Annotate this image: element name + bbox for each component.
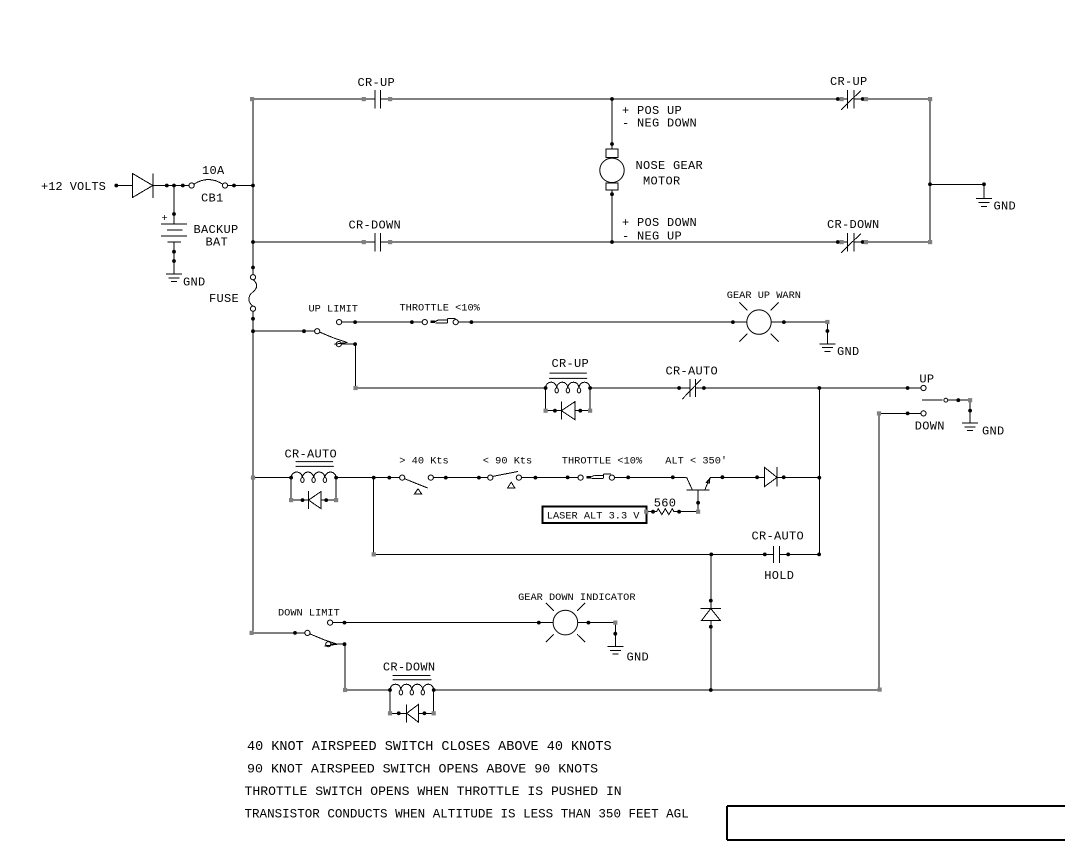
wire left bus vertical lower	[252, 311, 254, 633]
ground GND right of rails	[976, 199, 992, 207]
junction dots row 5	[289, 476, 293, 480]
title block border	[727, 806, 1065, 840]
wire 40kt to 90kt switch	[433, 477, 487, 479]
svg-text:GND: GND	[994, 200, 1017, 214]
svg-text:CR-AUTO: CR-AUTO	[285, 448, 338, 462]
ground GND at battery	[166, 274, 182, 282]
node squares top rail	[250, 97, 254, 101]
junction dots row 8	[388, 688, 392, 692]
node square warn lamp ground corner	[824, 219, 826, 221]
svg-text:GEAR UP WARN: GEAR UP WARN	[727, 290, 801, 302]
node squares CR-AUTO flyback diode	[289, 498, 293, 502]
wire down-limit upper throw to indicator lamp	[333, 622, 553, 624]
flyback diode across CR-DOWN coil	[390, 690, 434, 722]
svg-text:CR-UP: CR-UP	[358, 76, 396, 90]
node square DOWN branch corner	[877, 411, 881, 415]
junction dots row 7	[293, 631, 297, 635]
wire right vertical joining rails	[929, 99, 931, 242]
svg-text:GND: GND	[183, 276, 206, 290]
relay coil CR-DOWN	[390, 684, 434, 690]
svg-text:- NEG DOWN: - NEG DOWN	[622, 117, 697, 131]
node square CR-UP row corner	[353, 386, 357, 390]
svg-text:40 KNOT AIRSPEED SWITCH CLOSES: 40 KNOT AIRSPEED SWITCH CLOSES ABOVE 40 …	[247, 740, 612, 755]
wire CR-UP coil row	[356, 387, 546, 389]
wire left bus vertical top (to top rail)	[252, 99, 254, 275]
svg-text:< 90 Kts: < 90 Kts	[483, 456, 532, 468]
wire selector common to ground	[948, 400, 970, 423]
svg-text:CB1: CB1	[201, 192, 224, 206]
wire top rail (bus UP side)	[252, 98, 930, 100]
wire diode to circuit breaker	[153, 185, 189, 187]
junction dots row 6 hold	[709, 553, 713, 557]
lamp GEAR UP WARN	[747, 310, 771, 334]
svg-text:560: 560	[654, 497, 677, 511]
wire CR-AUTO coil row start	[253, 477, 291, 479]
relay coil CR-UP	[546, 382, 590, 388]
wire lamp to ground corner	[578, 623, 616, 647]
wire transistor base drop	[697, 490, 699, 512]
node square left bus bottom end	[250, 631, 254, 635]
svg-text:THROTTLE <10%: THROTTLE <10%	[562, 456, 643, 468]
wire right vertical to bottom rail	[878, 413, 880, 690]
junction dots blocking diode	[709, 599, 713, 603]
junction dots battery branch	[172, 212, 176, 216]
svg-text:NOSE GEAR: NOSE GEAR	[636, 159, 704, 173]
terminal DOWN	[921, 411, 926, 416]
diode D3 blocking (points up)	[701, 609, 721, 621]
wire row 6 hold line	[374, 478, 820, 555]
wire up-limit upper throw to throttle switch	[342, 321, 423, 323]
circuit breaker CB1 10A	[189, 183, 194, 188]
wire CR-DOWN coil row start	[345, 689, 390, 691]
svg-text:90 KNOT AIRSPEED SWITCH OPENS: 90 KNOT AIRSPEED SWITCH OPENS ABOVE 90 K…	[247, 762, 598, 777]
junction dots selector and DOWN branch	[956, 398, 960, 402]
junction dots +12V feed	[114, 184, 118, 188]
svg-text:> 40 Kts: > 40 Kts	[399, 456, 448, 468]
wire throttle switch to warn lamp	[458, 321, 747, 323]
wire battery branch	[173, 186, 175, 225]
wire coil to CR-AUTO contact	[590, 387, 690, 389]
svg-text:- NEG UP: - NEG UP	[622, 230, 682, 244]
wire throttle to transistor	[615, 476, 687, 478]
lamp GEAR DOWN INDICATOR	[553, 610, 578, 635]
relay coil CR-AUTO	[291, 472, 336, 478]
wire down-limit lower throw to CR-DOWN row	[331, 644, 345, 690]
wire 90kt to throttle switch	[522, 477, 579, 479]
svg-text:THROTTLE <10%: THROTTLE <10%	[400, 303, 481, 315]
junction dots CR-UP flyback diode	[553, 409, 557, 413]
junction dots top rail and motor	[610, 97, 614, 101]
svg-text:UP LIMIT: UP LIMIT	[309, 304, 358, 316]
svg-text:CR-AUTO: CR-AUTO	[666, 365, 719, 379]
junction dots row 4	[544, 386, 548, 390]
switch gear selector blade	[922, 399, 942, 401]
svg-text:CR-AUTO: CR-AUTO	[752, 530, 805, 544]
junction dots row 3	[251, 329, 255, 333]
svg-text:FUSE: FUSE	[209, 292, 239, 306]
contact CR-UP (NC) right of motor	[841, 90, 861, 110]
svg-text:UP: UP	[919, 372, 934, 386]
switch THROTTLE <10% (row 5)	[578, 475, 583, 480]
wire CR-AUTO contact to UP terminal	[696, 387, 921, 389]
flyback diode across CR-UP coil	[546, 388, 591, 420]
svg-text:CR-DOWN: CR-DOWN	[827, 218, 880, 232]
junction dots NC contacts right	[836, 97, 840, 101]
junction dot up-limit lower throw	[353, 342, 357, 346]
svg-text:GND: GND	[837, 345, 860, 359]
wire up-limit lower throw to CR-UP coil row	[341, 344, 355, 388]
svg-text:10A: 10A	[202, 164, 225, 178]
node squares resistor and base corner	[644, 510, 648, 514]
node squares CR-DOWN flyback diode	[388, 711, 392, 715]
wire lamp to ground corner	[771, 322, 827, 344]
svg-text:LASER ALT 3.3 V: LASER ALT 3.3 V	[547, 511, 641, 523]
contact CR-DOWN (NO) on second rail	[375, 233, 381, 252]
svg-text:+ POS DOWN: + POS DOWN	[622, 216, 697, 230]
node square hold row corner	[372, 552, 376, 556]
svg-text:THROTTLE SWITCH OPENS WHEN THR: THROTTLE SWITCH OPENS WHEN THROTTLE IS P…	[245, 784, 622, 799]
node square CR-AUTO row tee	[251, 476, 255, 480]
contact CR-AUTO HOLD (NO)	[773, 546, 779, 563]
wire hold vertical (UP line to HOLD contact)	[818, 388, 820, 554]
wire battery to ground	[173, 242, 175, 274]
switch > 40 Kts (open)	[400, 475, 405, 480]
ground GND at selector	[962, 423, 978, 431]
wire ground stub at right	[930, 184, 984, 198]
switch UP LIMIT (SPDT)	[253, 330, 315, 332]
contact CR-AUTO (NC) row 4	[682, 379, 701, 399]
wire transistor to diode	[710, 476, 765, 478]
svg-text:MOTOR: MOTOR	[643, 175, 681, 189]
svg-text:+: +	[162, 213, 168, 225]
svg-text:GND: GND	[982, 425, 1005, 439]
box LASER ALT 3.3 V	[543, 506, 647, 523]
junction dots CR-DOWN flyback diode	[397, 711, 401, 715]
wire breaker to left bus	[228, 185, 253, 187]
ground GND at warn lamp	[819, 344, 835, 352]
svg-text:CR-UP: CR-UP	[830, 75, 868, 89]
wire DOWN terminal to right vertical	[879, 412, 921, 414]
svg-text:GND: GND	[627, 651, 650, 665]
diode D1 series protection	[133, 174, 154, 199]
ground GND at indicator lamp	[607, 647, 623, 655]
terminal UP	[921, 385, 926, 390]
junction dots fuse	[251, 266, 255, 270]
svg-text:ALT < 350': ALT < 350'	[665, 456, 727, 468]
svg-text:TRANSISTOR CONDUCTS WHEN ALTIT: TRANSISTOR CONDUCTS WHEN ALTITUDE IS LES…	[245, 808, 689, 822]
svg-text:CR-DOWN: CR-DOWN	[349, 219, 402, 233]
svg-text:+12 VOLTS: +12 VOLTS	[41, 180, 106, 194]
wire junction to blocking diode	[710, 554, 712, 608]
wire second rail (bus DOWN side)	[252, 241, 930, 243]
svg-text:DOWN LIMIT: DOWN LIMIT	[278, 608, 340, 620]
diode D2 to hold line	[765, 467, 777, 486]
battery BACKUP BAT	[161, 224, 187, 242]
node squares bottom rail ends	[343, 688, 347, 692]
svg-text:GEAR DOWN INDICATOR: GEAR DOWN INDICATOR	[518, 592, 635, 604]
junction dots transistor base and resistor	[696, 501, 700, 505]
wire +12V feed to diode	[116, 185, 132, 187]
resistor R1 560	[646, 509, 698, 515]
switch THROTTLE <10% (row 3)	[422, 320, 427, 325]
wire diode to hold vertical	[777, 476, 819, 478]
wire motor column	[611, 99, 613, 242]
switch DOWN LIMIT (SPDT)	[252, 632, 305, 634]
wire diode to bottom rail	[710, 621, 712, 690]
svg-text:CR-UP: CR-UP	[552, 357, 590, 371]
contact CR-DOWN (NC) right of motor	[841, 233, 861, 253]
fuse FUSE in left bus	[250, 275, 255, 280]
svg-text:BAT: BAT	[206, 236, 229, 250]
switch < 90 Kts (closed)	[488, 475, 493, 480]
node square selector ground corner	[968, 398, 972, 402]
motor NOSE GEAR MOTOR	[606, 149, 618, 157]
svg-text:HOLD: HOLD	[764, 569, 794, 583]
node square indicator lamp ground corner	[613, 621, 617, 625]
junction dots rail2 left and right gnd stub	[251, 240, 255, 244]
wire coil to 40kt switch	[336, 477, 400, 479]
wire bottom rail	[434, 689, 880, 691]
contact CR-UP (NO) on top rail	[375, 90, 381, 109]
transistor Q1 altitude switch	[686, 477, 710, 511]
svg-text:CR-DOWN: CR-DOWN	[383, 661, 436, 675]
node squares second rail	[362, 240, 366, 244]
junction dots CR-AUTO flyback diode	[301, 498, 305, 502]
junction dot down-limit lower throw	[343, 642, 347, 646]
svg-text:DOWN: DOWN	[915, 420, 945, 434]
flyback diode across CR-AUTO coil	[291, 478, 336, 510]
node squares CR-UP flyback diode	[544, 409, 548, 413]
